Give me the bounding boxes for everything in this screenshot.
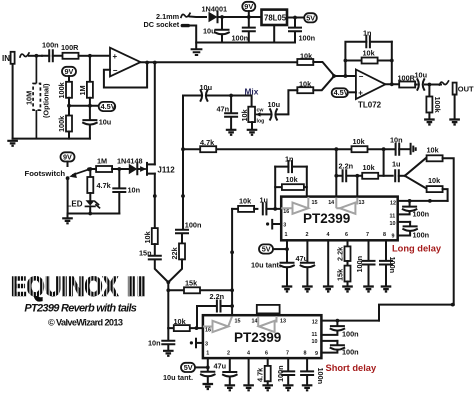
capacitor 10n rail end [390, 135, 410, 154]
svg-text:2.2n: 2.2n [339, 161, 354, 170]
svg-text:15k: 15k [336, 268, 345, 281]
svg-text:10n: 10n [128, 186, 141, 195]
svg-text:1: 1 [206, 351, 209, 357]
resistor 10k wet [288, 76, 334, 114]
svg-text:(Optional): (Optional) [42, 83, 51, 118]
node 9V [247, 15, 251, 19]
resistor 100R output [398, 74, 416, 88]
svg-text:5V: 5V [262, 245, 271, 254]
resistor 10k to chip2 (cross feed) [427, 145, 454, 304]
svg-text:3: 3 [205, 341, 208, 347]
oval 9V footswitch [61, 152, 75, 166]
resistor 10k chip2 input [168, 317, 203, 331]
wire chip2 pin2 down [229, 358, 231, 371]
ground (out jack) [449, 120, 460, 125]
ground (chip1 pin4) [323, 287, 334, 292]
resistor 1M bias [78, 56, 93, 106]
wire 15k up to chip1 input [231, 209, 233, 315]
resistor 22k [168, 243, 185, 282]
svg-text:3: 3 [283, 222, 286, 228]
resistor 2.2k chip1 delay [336, 240, 351, 261]
wire buffer output long rail [141, 61, 301, 63]
svg-text:10k: 10k [353, 137, 366, 146]
node chip2 pin1 5V [206, 366, 210, 370]
op-amp gray chip1 a [281, 197, 308, 214]
svg-text:Short delay: Short delay [326, 363, 377, 373]
ground (chip1 pin1) [282, 287, 293, 292]
capacitor 1n chip1 feedback [275, 154, 307, 172]
svg-text:10k: 10k [286, 175, 299, 184]
svg-text:10k: 10k [427, 145, 440, 154]
node summing [332, 74, 336, 78]
svg-text:100n: 100n [42, 41, 59, 50]
svg-text:100n: 100n [276, 365, 285, 382]
svg-text:10u: 10u [415, 70, 428, 79]
ground (DC socket) [192, 49, 202, 55]
OUT jack with squiggle [440, 81, 474, 119]
resistor 10k chip1 mod [357, 163, 392, 179]
svg-text:4.5V: 4.5V [101, 102, 116, 111]
wire input with jack tip squiggle [20, 53, 42, 57]
ground (pot) [247, 130, 258, 135]
svg-text:4.7k: 4.7k [256, 367, 265, 382]
svg-text:10k: 10k [239, 197, 252, 206]
node Y merge [166, 280, 170, 290]
wire 5V out [287, 17, 305, 19]
capacitor 47n [217, 96, 238, 129]
oval 5V main [304, 13, 317, 22]
svg-text:47n: 47n [217, 105, 230, 114]
diode 1N4148 [117, 156, 143, 174]
wire chip2 pin1 down [207, 358, 209, 371]
node 15k tap [166, 288, 170, 292]
ground (chip1 pin3) [266, 220, 281, 229]
node 15k junction [230, 288, 234, 292]
svg-text:10M: 10M [25, 91, 34, 105]
wire chip1 pin13 stub [356, 176, 358, 197]
svg-text:+: + [358, 89, 363, 98]
wire chip1 feedback right to pin15 [306, 167, 308, 197]
svg-text:11: 11 [312, 332, 318, 338]
capacitor 100n chip1 lpf1 [398, 201, 429, 219]
wire J112 drain up [154, 63, 156, 165]
ground (chip1 pin7) [363, 287, 374, 292]
capacitor 100n chip2 lpf1 [321, 321, 358, 339]
svg-text:12: 12 [312, 319, 318, 325]
svg-text:7: 7 [286, 351, 289, 357]
ground (footswitch) [62, 214, 73, 224]
node bias bottom [88, 104, 92, 108]
svg-text:16: 16 [283, 209, 289, 215]
wire opamp output [385, 83, 399, 85]
resistor 4.7k chip2 delay [256, 358, 271, 384]
svg-text:78L05: 78L05 [264, 13, 287, 22]
svg-text:Footswitch: Footswitch [25, 169, 66, 178]
LED [67, 200, 100, 214]
resistor 4.7k LED [87, 169, 111, 200]
svg-text:10k: 10k [363, 49, 376, 58]
svg-text:1u: 1u [392, 159, 401, 168]
node source tick [153, 194, 157, 198]
capacitor 100n chip1 pin8 [380, 257, 397, 286]
op-amp U1a buffer [110, 48, 141, 77]
svg-text:22k: 22k [170, 246, 179, 259]
resistor 10k to chip1 pin12 [427, 176, 448, 201]
wire ground rail left [13, 138, 90, 140]
node 10u tap [220, 15, 224, 19]
svg-text:100n: 100n [413, 231, 430, 240]
node 10n tap [117, 167, 121, 171]
wire chip2 pin7 down [287, 358, 289, 371]
wire jack sleeve to ground rail [12, 64, 14, 139]
svg-text:1M: 1M [78, 85, 87, 95]
svg-text:100n: 100n [232, 34, 249, 43]
capacitor 47u chip2 [214, 361, 237, 384]
wire chip1 pin14 stub [335, 149, 337, 196]
regulator 78L05 [262, 10, 288, 43]
svg-text:−: − [113, 66, 118, 75]
svg-text:8: 8 [304, 351, 307, 357]
svg-text:5V: 5V [306, 13, 315, 22]
svg-text:© ValveWizard 2013: © ValveWizard 2013 [48, 318, 123, 328]
ground (chip1 pin8) [381, 287, 392, 292]
oval 5V chip2 [181, 363, 208, 372]
svg-text:100n: 100n [316, 368, 325, 385]
resistor 100k output load [426, 85, 442, 119]
svg-text:100n: 100n [185, 220, 202, 229]
wire 1u vertical [383, 149, 385, 176]
resistor 15k chip1 delay [336, 261, 351, 286]
node output feedback [390, 82, 394, 86]
ground (input) [7, 141, 18, 146]
svg-text:15k: 15k [185, 278, 198, 287]
DC socket tip squiggle [181, 13, 206, 17]
svg-text:9V: 9V [65, 67, 74, 76]
wire to inverting input [334, 75, 356, 77]
wire chip1 pin2 down [306, 240, 308, 262]
oval 9V main [242, 2, 255, 17]
resistor 100R input [61, 43, 90, 59]
node 2.2n tap chip2 [195, 326, 199, 330]
oval 5V chip1 [259, 244, 287, 253]
potentiometer Mix 10k log [240, 107, 264, 129]
capacitor 2.2n chip2 feedback [197, 292, 232, 328]
DC socket sleeve [181, 24, 197, 49]
resistor 1M footswitch [89, 156, 129, 172]
ground (chip2 pin8) [302, 385, 313, 390]
resistor 100k divider upper [57, 76, 72, 106]
svg-text:−: − [359, 72, 364, 81]
svg-text:4: 4 [327, 232, 330, 238]
ground (chip2 pin7) [283, 385, 294, 390]
wire supply ground rail [196, 42, 295, 44]
resistor chip2 pins14-13 loop [257, 305, 280, 315]
svg-text:LED: LED [67, 200, 83, 209]
node 4.7k branch tick [181, 194, 185, 198]
oval 9V supply divider [62, 67, 76, 76]
DC socket labels [144, 12, 180, 29]
wire to op-amp [90, 55, 110, 57]
svg-text:10k: 10k [240, 108, 249, 121]
node input junction [35, 54, 39, 58]
node output jack [428, 83, 432, 87]
node 4.7k wire tap [181, 147, 185, 151]
footswitch lever [66, 167, 91, 180]
svg-text:12: 12 [390, 201, 396, 207]
ground (chip2 pin6) [262, 385, 273, 390]
capacitor 100n input [42, 41, 63, 62]
svg-text:11: 11 [390, 213, 396, 219]
capacitor 10u wiper out [261, 100, 288, 120]
svg-text:100R: 100R [61, 43, 79, 52]
svg-text:8: 8 [383, 232, 386, 238]
wire footswitch ground rail [68, 213, 120, 215]
svg-text:10u tant.: 10u tant. [251, 260, 281, 269]
svg-text:100n: 100n [342, 329, 359, 338]
capacitor 100n chip2 lpf2 [321, 341, 358, 356]
svg-text:PT2399 Reverb with tails: PT2399 Reverb with tails [24, 303, 136, 315]
wire chip1 pin12 row [398, 200, 448, 202]
svg-text:13: 13 [280, 318, 286, 324]
ground (chip2 pin3) [190, 339, 203, 348]
node feedback left [344, 74, 348, 78]
svg-text:9: 9 [392, 234, 395, 240]
IC U3 PT2399 [203, 315, 322, 358]
node pin13 row [355, 174, 359, 178]
svg-text:10u: 10u [203, 27, 216, 36]
svg-text:6: 6 [345, 232, 348, 238]
svg-text:100n: 100n [299, 34, 316, 43]
node mid tick [230, 250, 234, 254]
ground (chip2 pin4) [243, 385, 254, 390]
wire switch down [67, 178, 69, 213]
node 47n tap [229, 94, 233, 98]
node hop [428, 199, 432, 203]
capacitor 15n [139, 244, 168, 282]
wire 4.7k branch vertical [182, 96, 184, 230]
capacitor 10u reservoir [203, 17, 229, 43]
capacitor 100n chip2 pin8 [301, 368, 325, 385]
capacitor 100n chip1 lpf2 [398, 222, 429, 240]
node LED bottom [88, 212, 92, 216]
node 100n out tap [293, 16, 297, 20]
capacitor 47u chip1 [296, 254, 315, 286]
svg-text:1M: 1M [97, 156, 107, 165]
capacitor 10n footswitch [113, 169, 140, 214]
oval 4.5V node label [99, 102, 116, 111]
wire 1u split diagonals [405, 158, 428, 189]
resistor 10k chip1 input [232, 197, 257, 212]
svg-text:14: 14 [328, 200, 334, 206]
wire chip2 pin4 down [248, 358, 250, 384]
capacitor 10u divider [83, 106, 111, 139]
op-amp gray chip2 a [203, 317, 232, 333]
svg-text:10: 10 [390, 221, 396, 227]
resistor 10k dry [297, 52, 334, 76]
svg-text:100k: 100k [57, 81, 66, 98]
svg-text:100k: 100k [57, 115, 66, 132]
svg-text:Long delay: Long delay [392, 244, 442, 254]
capacitor 1n feedback [345, 29, 391, 77]
wire 10u mix feed [183, 96, 252, 107]
ground (chip1 pin6) [342, 287, 353, 292]
svg-text:5V: 5V [184, 363, 193, 372]
IC U2 PT2399 [281, 197, 398, 241]
svg-text:7: 7 [366, 232, 369, 238]
wire J112 source down [154, 174, 156, 229]
node 1u top tap [382, 147, 386, 151]
node pin14 top [334, 147, 338, 151]
wire chip1 pin10 row [398, 221, 410, 223]
svg-text:9V: 9V [63, 153, 72, 162]
svg-text:100k: 100k [433, 97, 442, 114]
capacitor 10u mix in [200, 83, 213, 101]
wire chip1 pin1 down [286, 240, 288, 262]
op-amp U1b TL072 [356, 70, 386, 110]
svg-text:13: 13 [359, 200, 365, 206]
svg-text:100n: 100n [413, 210, 430, 219]
ground (chip2 pin2) [225, 385, 236, 390]
wire chip2 pin12 row [321, 320, 379, 322]
svg-text:9V: 9V [244, 2, 253, 11]
svg-text:16: 16 [205, 327, 211, 333]
svg-text:log: log [257, 119, 265, 125]
node chip2 pin15 2.2n tap [230, 304, 234, 308]
transistor J112 JFET [139, 163, 175, 175]
svg-text:4.7k: 4.7k [97, 181, 112, 190]
op-amp gray chip1 b [336, 197, 357, 214]
node 4.7k tap [88, 167, 92, 171]
resistor 10k top rail [352, 137, 368, 152]
resistor 100k divider lower [57, 106, 72, 139]
capacitor 1u chip1 input [260, 195, 282, 214]
resistor 10k source chain [143, 228, 158, 244]
wire Y down to 10k [167, 290, 169, 328]
node pin14 row [334, 174, 338, 178]
node cross feed corner [451, 303, 455, 307]
svg-text:14: 14 [252, 318, 258, 324]
node chip2 cap m tap [336, 319, 340, 323]
node J112 drain tap [153, 61, 157, 65]
capacitor 100n regulator output [289, 18, 315, 43]
ground (10n sideways) [411, 144, 416, 154]
capacitor 1u chip1 out [392, 159, 405, 181]
svg-text:IN: IN [2, 54, 10, 63]
svg-text:10n: 10n [148, 339, 161, 348]
logo EQUINOX II [11, 272, 146, 302]
svg-text:2: 2 [227, 351, 230, 357]
svg-text:4.5V: 4.5V [334, 88, 349, 97]
resistor 10k feedback [344, 42, 394, 85]
svg-text:10k: 10k [428, 176, 441, 185]
wire cross feed to chip2 [379, 305, 454, 321]
oval 4.5V opamp [332, 88, 356, 97]
node chip1 pin16 [273, 207, 277, 211]
capacitor 100n wet [176, 220, 201, 244]
capacitor 100n chip1 pin7 [355, 256, 375, 286]
svg-text:10u: 10u [268, 100, 281, 109]
svg-text:OUT: OUT [458, 84, 474, 93]
svg-text:2: 2 [306, 232, 309, 238]
wire chip1 pin8 down [385, 240, 387, 260]
wire feedback buffer [104, 63, 147, 88]
wire chip2 pin8 down [306, 358, 308, 371]
capacitor 2.2n chip1 [336, 161, 357, 181]
svg-text:10k: 10k [143, 230, 152, 243]
capacitor 10u tant chip2 [163, 372, 215, 383]
ground (47n) [226, 130, 237, 135]
svg-text:47u: 47u [296, 254, 309, 263]
svg-text:10u tant.: 10u tant. [163, 373, 193, 382]
wire chip1 pin7 down [368, 240, 370, 260]
svg-text:100n: 100n [342, 347, 359, 356]
node buffer input [88, 54, 92, 58]
wire 9V rail [222, 16, 262, 18]
resistor 10M optional (dashed) [25, 56, 51, 139]
IN jack [2, 52, 15, 64]
ground (chip1 pin2) [302, 287, 313, 292]
node buffer output feedback [145, 61, 149, 65]
wire chip1 pin4 down [327, 240, 329, 285]
svg-text:6: 6 [265, 351, 268, 357]
resistor 4.7k mix rail [183, 138, 216, 152]
svg-text:PT2399: PT2399 [303, 211, 350, 226]
wire chip1 feedback left [274, 167, 276, 209]
wire top rail 4.7k to 10n [216, 148, 394, 150]
ground (chip2 pin1) [203, 384, 214, 389]
node cap k tap [408, 199, 412, 203]
ground (10n chip2) [163, 351, 174, 356]
capacitor 10n chip2 lowpass [148, 328, 174, 350]
svg-text:TL072: TL072 [358, 101, 382, 110]
wire 4.5V node [69, 105, 99, 107]
capacitor 100n chip2 pin7 [276, 365, 294, 384]
svg-text:1: 1 [285, 232, 288, 238]
svg-text:1N4001: 1N4001 [202, 5, 228, 14]
svg-text:15: 15 [312, 200, 318, 206]
node divider [67, 104, 71, 108]
svg-text:10: 10 [312, 339, 318, 345]
svg-text:2.2k: 2.2k [336, 246, 345, 261]
svg-text:10k: 10k [363, 163, 376, 172]
svg-text:DC socket: DC socket [144, 20, 180, 29]
svg-text:1N4148: 1N4148 [117, 156, 143, 165]
svg-text:J112: J112 [157, 166, 175, 175]
svg-text:10u: 10u [99, 118, 112, 127]
ground (100k load) [424, 120, 435, 125]
capacitor 100n regulator input [232, 17, 255, 43]
svg-text:47u: 47u [214, 361, 227, 370]
resistor 15k [168, 278, 232, 293]
svg-text:9: 9 [315, 351, 318, 357]
svg-text:2.2n: 2.2n [210, 292, 225, 301]
diode 1N4001 [202, 5, 228, 23]
svg-text:+: + [113, 52, 118, 61]
capacitor 10u output [415, 70, 442, 89]
op-amp gray chip2 b [258, 316, 276, 332]
svg-text:4: 4 [247, 351, 250, 357]
wire chip2 pin10 row [321, 340, 337, 342]
node pin1 5V [285, 247, 289, 251]
resistor 10k chip1 feedback [275, 175, 307, 190]
svg-text:Mix: Mix [245, 87, 259, 97]
capacitor 10u tant chip1 [251, 260, 294, 286]
svg-text:15: 15 [235, 318, 241, 324]
